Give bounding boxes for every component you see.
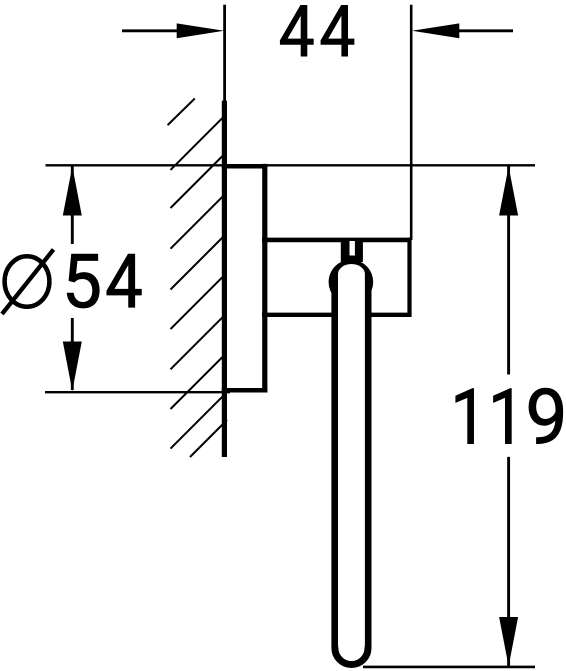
dim 44 left arrowhead	[177, 23, 224, 38]
bottom extension line of plate (circle bottom)	[45, 391, 230, 393]
dim 44 label digit 4	[280, 5, 313, 56]
roll holder loop top knuckle	[329, 260, 374, 305]
dim 119 vertical line lower segment	[507, 457, 510, 666]
wall hatch line i	[171, 395, 225, 449]
wall hatch line d	[171, 195, 225, 249]
bottom extension line (119 bottom)	[363, 666, 535, 669]
dim 54 label diameter symbol slash	[2, 250, 54, 315]
dim 54 vertical line upper segment	[71, 166, 74, 244]
dim 119 down arrowhead	[499, 617, 518, 666]
dim 54 down arrowhead	[63, 342, 82, 392]
extension line above wall (44 dim, left)	[223, 5, 226, 102]
wall plate right edge	[262, 164, 267, 393]
dim 119 label digit 1	[494, 389, 512, 444]
roll holder loop tube outline	[335, 285, 368, 665]
holder housing top edge	[262, 238, 412, 243]
wall hatch line g	[171, 315, 225, 369]
top extension line (circle top / 119 top)	[46, 164, 536, 166]
pivot pin slot (white)	[350, 241, 355, 256]
wall plate bottom edge	[222, 388, 268, 393]
dim 54 label diameter symbol circle	[5, 256, 50, 306]
wall hatch line j (short, bottom)	[190, 420, 227, 457]
pivot pin block	[341, 242, 363, 262]
wall hatch line f	[171, 275, 225, 329]
dim 44 right arrowhead	[412, 23, 459, 38]
dim 44 right leader line	[458, 29, 513, 32]
dim 44 label digit 4	[321, 5, 354, 56]
wall hatch line c	[171, 154, 225, 208]
dim 54 label digit 4	[107, 254, 141, 307]
wall plate top edge	[222, 164, 268, 169]
dim 119 label digit 1	[456, 389, 474, 444]
wall hatch line e	[171, 236, 225, 290]
dim 44 left leader line	[122, 29, 185, 32]
holder housing bottom edge	[262, 313, 412, 317]
wall face line	[222, 101, 227, 457]
wall hatch line h	[171, 355, 225, 409]
dim 54 vertical line lower segment	[71, 318, 74, 390]
roll holder loop inner opening (white)	[338, 264, 365, 658]
dim 54 up arrowhead	[63, 166, 82, 215]
dim 119 up arrowhead	[499, 166, 518, 215]
extension line right (44 dim)	[410, 5, 413, 240]
wall hatch line a (short, top)	[168, 99, 195, 126]
dim 119 label digit 9	[529, 388, 563, 443]
dim 119 vertical line upper segment	[507, 166, 510, 374]
dim 54 label digit 5	[67, 254, 99, 308]
wall hatch line b	[171, 116, 225, 170]
holder housing right edge	[407, 238, 411, 317]
